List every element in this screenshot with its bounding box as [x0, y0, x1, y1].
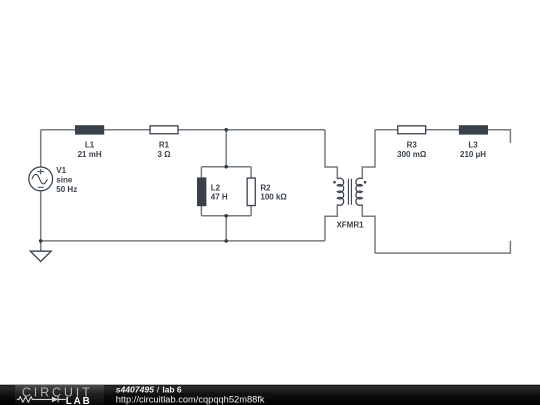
CircuitLab logo wordmark CIRCUIT: [22, 385, 93, 399]
wire node A to parallel block top: [225, 130, 227, 167]
svg-text:http://circuitlab.com/cqpqqh52: http://circuitlab.com/cqpqqh52m88fk: [116, 395, 265, 405]
svg-text:lab 6: lab 6: [162, 384, 181, 394]
wire parallel block bottom to bottom rail: [225, 216, 227, 241]
svg-text:s4407495: s4407495: [116, 384, 154, 394]
node junction dot top at L2R2 tap: [224, 128, 228, 132]
svg-text:L3: L3: [468, 140, 478, 149]
R2 value label: [260, 183, 287, 201]
resistor R2: [247, 178, 255, 206]
transformer XFMR1 primary winding: [337, 178, 343, 205]
R1 value label: [157, 140, 171, 159]
svg-text:V1: V1: [56, 166, 66, 175]
svg-text:R3: R3: [407, 140, 418, 149]
svg-text:sine: sine: [56, 175, 73, 184]
node junction dot ground tap: [39, 239, 43, 243]
footer bar: [0, 385, 540, 405]
wire parallel block frame: [201, 167, 251, 216]
wire transformer secondary top lead: [362, 130, 375, 179]
wire transformer primary bottom lead: [325, 205, 337, 241]
svg-text:47 H: 47 H: [211, 193, 228, 202]
svg-text:300 mΩ: 300 mΩ: [397, 150, 427, 159]
wire top rail from V1 to transformer primary: [41, 129, 325, 131]
L3 value label: [460, 140, 486, 159]
node junction dot parallel bottom: [224, 214, 228, 218]
transformer XFMR1 secondary phase dot: [364, 181, 367, 184]
inductor L2: [197, 177, 206, 206]
R3 value label: [397, 140, 427, 159]
CircuitLab logo wordmark LAB: [66, 396, 92, 405]
CircuitLab logo circuit line with resistor and diode: [17, 397, 66, 403]
ground: [30, 251, 51, 261]
transformer XFMR1 core: [348, 179, 351, 205]
svg-text:21 mH: 21 mH: [78, 150, 102, 159]
node junction dot parallel top: [224, 165, 228, 169]
node junction dot bottom rail: [224, 239, 228, 243]
svg-text:R2: R2: [260, 183, 271, 192]
svg-text:L2: L2: [211, 183, 221, 192]
transformer XFMR1 secondary winding: [356, 178, 362, 205]
svg-text:100 kΩ: 100 kΩ: [260, 193, 287, 202]
voltage source V1 symbol: [29, 167, 53, 191]
resistor R3: [398, 126, 426, 134]
svg-text:50 Hz: 50 Hz: [56, 185, 77, 194]
L1 value label: [78, 140, 102, 159]
wire bottom rail: [41, 240, 325, 242]
wire secondary top rail with open stub: [375, 130, 510, 143]
svg-text:L1: L1: [85, 140, 95, 149]
svg-text:LAB: LAB: [66, 396, 92, 405]
inductor L3: [459, 125, 488, 134]
footer title text: [116, 384, 182, 394]
V1 value label: [56, 166, 77, 194]
XFMR1 label: [336, 221, 364, 230]
svg-text:XFMR1: XFMR1: [336, 221, 364, 230]
inductor L1: [75, 125, 104, 134]
wire left vertical V1 branch: [40, 130, 42, 251]
svg-text:R1: R1: [159, 140, 170, 149]
resistor R1: [150, 126, 178, 134]
footer url text: [116, 395, 265, 405]
wire transformer secondary bottom lead: [362, 205, 375, 254]
transformer XFMR1 primary phase dot: [333, 181, 336, 184]
svg-text:210 µH: 210 µH: [460, 150, 486, 159]
L2 value label: [211, 183, 228, 201]
wire transformer primary top lead: [325, 130, 337, 179]
wire secondary bottom rail with open stub: [375, 241, 510, 253]
svg-text:3 Ω: 3 Ω: [157, 150, 171, 159]
